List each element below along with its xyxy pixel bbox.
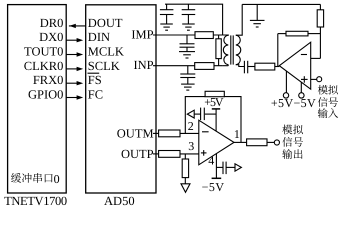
svg-text:FS: FS [88, 73, 102, 87]
svg-text:DX0: DX0 [39, 30, 63, 44]
svg-text:4: 4 [208, 154, 214, 168]
arrow to ground (right) [235, 164, 241, 171]
transformer T1 secondary winding [236, 35, 241, 64]
wire FC net between U1 and U2 [66, 97, 78, 99]
arrowhead into U2 (rightward) [77, 52, 84, 56]
svg-text:1: 1 [234, 127, 240, 141]
arrowhead into U2 (rightward) [77, 38, 84, 42]
label 模拟信号输入 (analog signal input) [318, 85, 338, 118]
svg-text:DOUT: DOUT [88, 16, 123, 30]
resistor R4 (series, input path) [255, 63, 275, 70]
wire R6 to inverting node [319, 27, 321, 58]
wire U3 supply +5V [285, 71, 287, 93]
op-amp U3 (input buffer, points left) [279, 42, 310, 89]
svg-text:−5V: −5V [202, 180, 225, 194]
svg-text:TNETV1700: TNETV1700 [4, 194, 67, 207]
wire top filter rail (IMP node) [165, 4, 223, 35]
capacitor C4 on INP [187, 66, 189, 74]
-5V rail bar [212, 177, 222, 179]
wire R4 to U3 output [275, 66, 280, 68]
U3 plus sign [301, 78, 308, 80]
svg-text:IMP: IMP [131, 28, 153, 42]
svg-text:DIN: DIN [88, 30, 110, 44]
svg-text:CLKR0: CLKR0 [24, 59, 64, 73]
wire IMP net [153, 34, 223, 36]
U4 minus sign [202, 131, 209, 133]
transformer T1 primary winding [223, 35, 229, 65]
svg-text:OUTM: OUTM [117, 126, 154, 140]
wire feedback to U4 output [224, 97, 241, 143]
wire DOUT net between U1 and U2 [69, 25, 86, 27]
wire OUTP to R8 [153, 153, 159, 155]
terminal: analog signal output [274, 140, 279, 145]
svg-text:3: 3 [188, 139, 194, 153]
terminal +5V [283, 93, 288, 98]
arrowhead into U2 (rightward) [77, 67, 84, 71]
label 缓冲串口0 (buffered serial port 0) [11, 172, 59, 186]
resistor R8 series OUTP [159, 151, 180, 158]
svg-text:OUTP: OUTP [121, 147, 154, 161]
label 模拟信号输出 (analog signal output) [282, 125, 303, 159]
resistor R3 across transformer primary [218, 35, 220, 39]
wire feedback to U3 output [277, 34, 279, 67]
ground under C2 [182, 23, 195, 25]
U4 plus sign [201, 152, 207, 154]
arrowhead into U1 pin DR0 (leftward) [69, 24, 76, 28]
svg-text:FC: FC [88, 87, 103, 101]
wire R8 to U4 noninverting input (pin 3) [180, 153, 199, 155]
wire DIN net between U1 and U2 [66, 39, 78, 41]
resistor R10 bias on pin 3 [184, 154, 186, 159]
resistor R9 feedback of U4 [185, 97, 205, 134]
resistor R7 series OUTM [159, 130, 180, 137]
wire U3 supply -5V [300, 82, 302, 92]
svg-text:AD50: AD50 [104, 194, 135, 207]
resistor R5 feedback of U3 [278, 33, 286, 35]
arrowhead into U2 (rightward) [77, 81, 84, 85]
svg-text:DR0: DR0 [40, 16, 64, 30]
terminal -5V [299, 93, 304, 98]
wire SCLK net between U1 and U2 [66, 68, 78, 70]
wire MCLK net between U1 and U2 [66, 54, 78, 56]
IC U2 AD50 block [86, 5, 156, 193]
ground G1 on rail [256, 4, 258, 20]
wire ground rail (top right) [242, 3, 320, 5]
capacitor C1 [166, 4, 168, 9]
svg-text:0: 0 [54, 172, 60, 186]
capacitor C6 (+5V decoupling) [205, 113, 216, 115]
svg-text:INP: INP [133, 58, 153, 72]
U3 minus sign [301, 54, 307, 56]
arrow to ground (left) [187, 110, 194, 118]
terminal: analog signal input [317, 77, 322, 82]
svg-text:MCLK: MCLK [88, 44, 124, 58]
svg-text:2: 2 [188, 119, 194, 133]
wire INP net [153, 65, 223, 67]
wire U4 output [234, 141, 247, 143]
wire R11 to output terminal [267, 141, 275, 143]
wire U3 inverting input [311, 57, 321, 59]
capacitor C2 [187, 4, 189, 9]
svg-text:FRX0: FRX0 [33, 73, 64, 87]
capacitor C3 on IMP [186, 35, 188, 44]
arrowhead into U2 (rightward) [77, 95, 84, 99]
resistor R11 series output [247, 139, 267, 146]
resistor R6 bias to ground [319, 4, 321, 9]
capacitor C7 (-5V decoupling) [216, 166, 222, 168]
svg-text:SCLK: SCLK [88, 59, 120, 73]
svg-text:+5V: +5V [204, 95, 224, 109]
+5V rail bar [212, 108, 220, 110]
wire FS net between U1 and U2 [66, 82, 78, 84]
wire secondary top to ground rail [236, 4, 242, 35]
svg-text:TOUT0: TOUT0 [24, 44, 63, 58]
transformer T1 core [230, 35, 232, 64]
svg-text:+5V−5V: +5V−5V [271, 96, 316, 110]
IC U1 TNETV1700 block [8, 5, 67, 193]
wire pin 4 to -5V [215, 154, 217, 179]
ground under C4 [181, 83, 195, 85]
resistor R1 in series with IMP [195, 32, 213, 39]
svg-text:GPIO0: GPIO0 [28, 87, 63, 101]
wire OUTM to R7 [153, 132, 159, 134]
wire secondary bottom to C5 [236, 65, 245, 67]
resistor R2 in series with INP [195, 63, 214, 70]
wire +5V to U4 top [215, 109, 217, 131]
arrow to ground (down) [181, 184, 190, 193]
wire U3 noninverting input to terminal [311, 78, 317, 80]
overline on FS (active-low) [88, 72, 100, 74]
ground under C3 [179, 51, 195, 53]
ground under C1 [160, 23, 173, 25]
op-amp U4 (output driver, points right) [199, 120, 234, 165]
capacitor C5 (series, input path) [243, 61, 245, 74]
wire R7 to U4 inverting input (pin 2) [180, 132, 199, 134]
wire C5 to R4 [248, 66, 255, 68]
